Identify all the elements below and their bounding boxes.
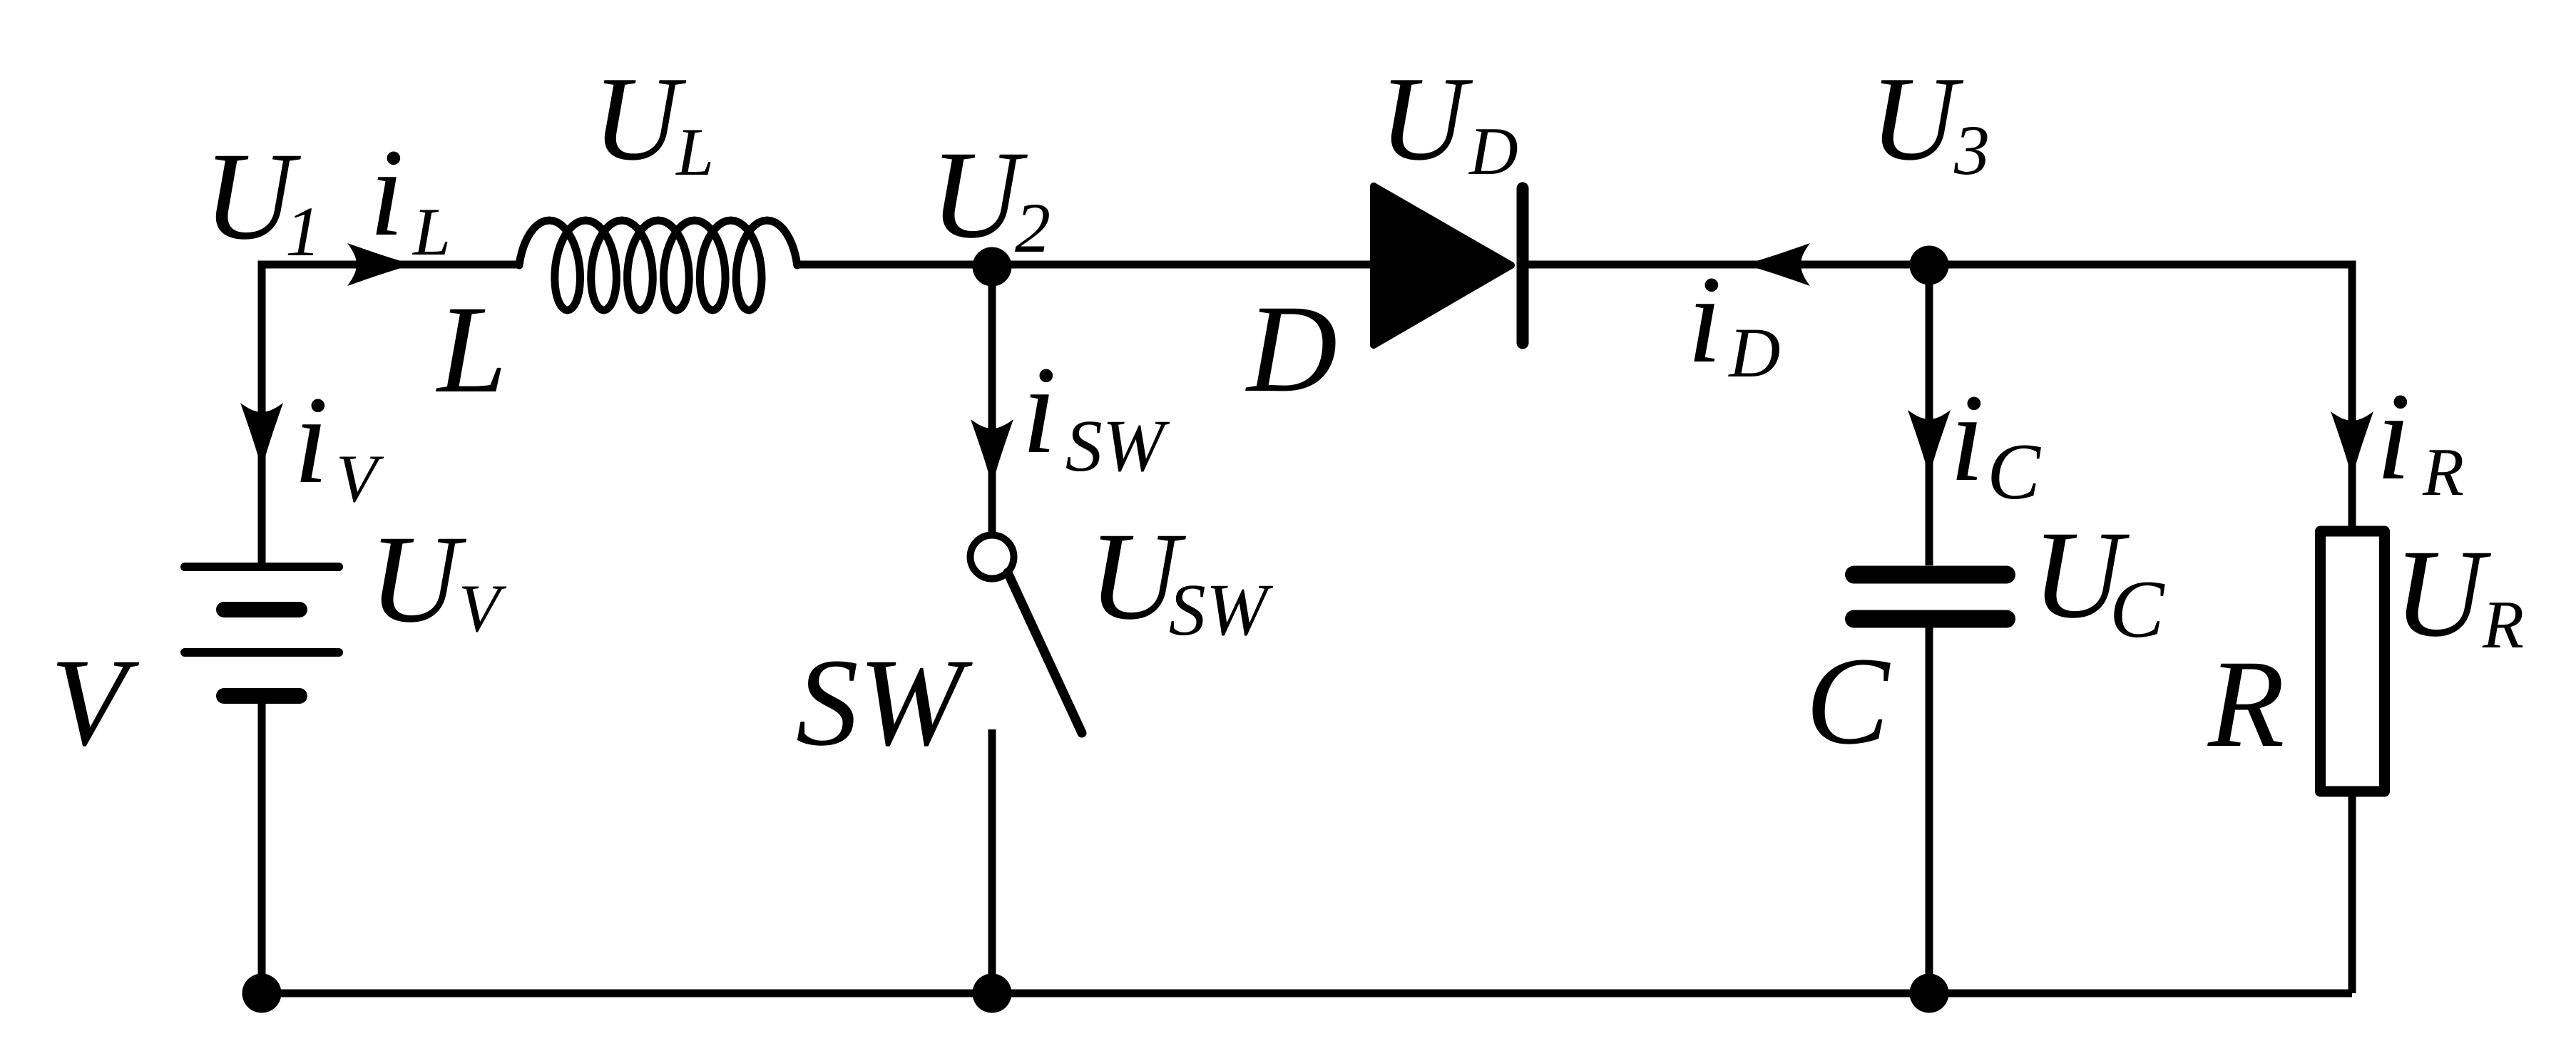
svg-text:C: C (1987, 428, 2041, 516)
svg-text:D: D (1468, 113, 1518, 189)
svg-text:L: L (412, 194, 451, 270)
svg-text:R: R (2207, 635, 2285, 774)
svg-text:SW: SW (1065, 405, 1170, 487)
svg-text:R: R (2422, 434, 2464, 510)
svg-text:C: C (2110, 564, 2165, 655)
svg-text:U: U (593, 51, 687, 185)
svg-text:i: i (1687, 250, 1722, 389)
svg-text:L: L (675, 114, 714, 190)
svg-text:U: U (369, 510, 466, 649)
svg-text:U: U (2393, 524, 2491, 663)
svg-text:i: i (1950, 369, 1985, 508)
svg-text:3: 3 (1953, 111, 1990, 190)
svg-text:SW: SW (796, 633, 973, 772)
svg-text:i: i (1022, 341, 1057, 480)
svg-text:i: i (294, 371, 329, 510)
svg-text:C: C (1806, 632, 1891, 771)
svg-text:V: V (459, 570, 507, 646)
svg-text:L: L (435, 280, 507, 419)
svg-text:D: D (1245, 280, 1337, 419)
svg-text:U: U (1379, 51, 1473, 185)
svg-text:i: i (2376, 367, 2411, 506)
svg-text:U: U (1870, 51, 1964, 185)
svg-text:i: i (369, 123, 404, 262)
svg-text:D: D (1727, 313, 1780, 392)
svg-text:2: 2 (1015, 188, 1051, 267)
svg-text:V: V (51, 633, 140, 772)
svg-text:SW: SW (1169, 569, 1274, 651)
svg-text:1: 1 (285, 192, 321, 271)
svg-text:U: U (930, 125, 1028, 265)
svg-text:V: V (336, 441, 384, 516)
svg-text:R: R (2482, 587, 2524, 662)
